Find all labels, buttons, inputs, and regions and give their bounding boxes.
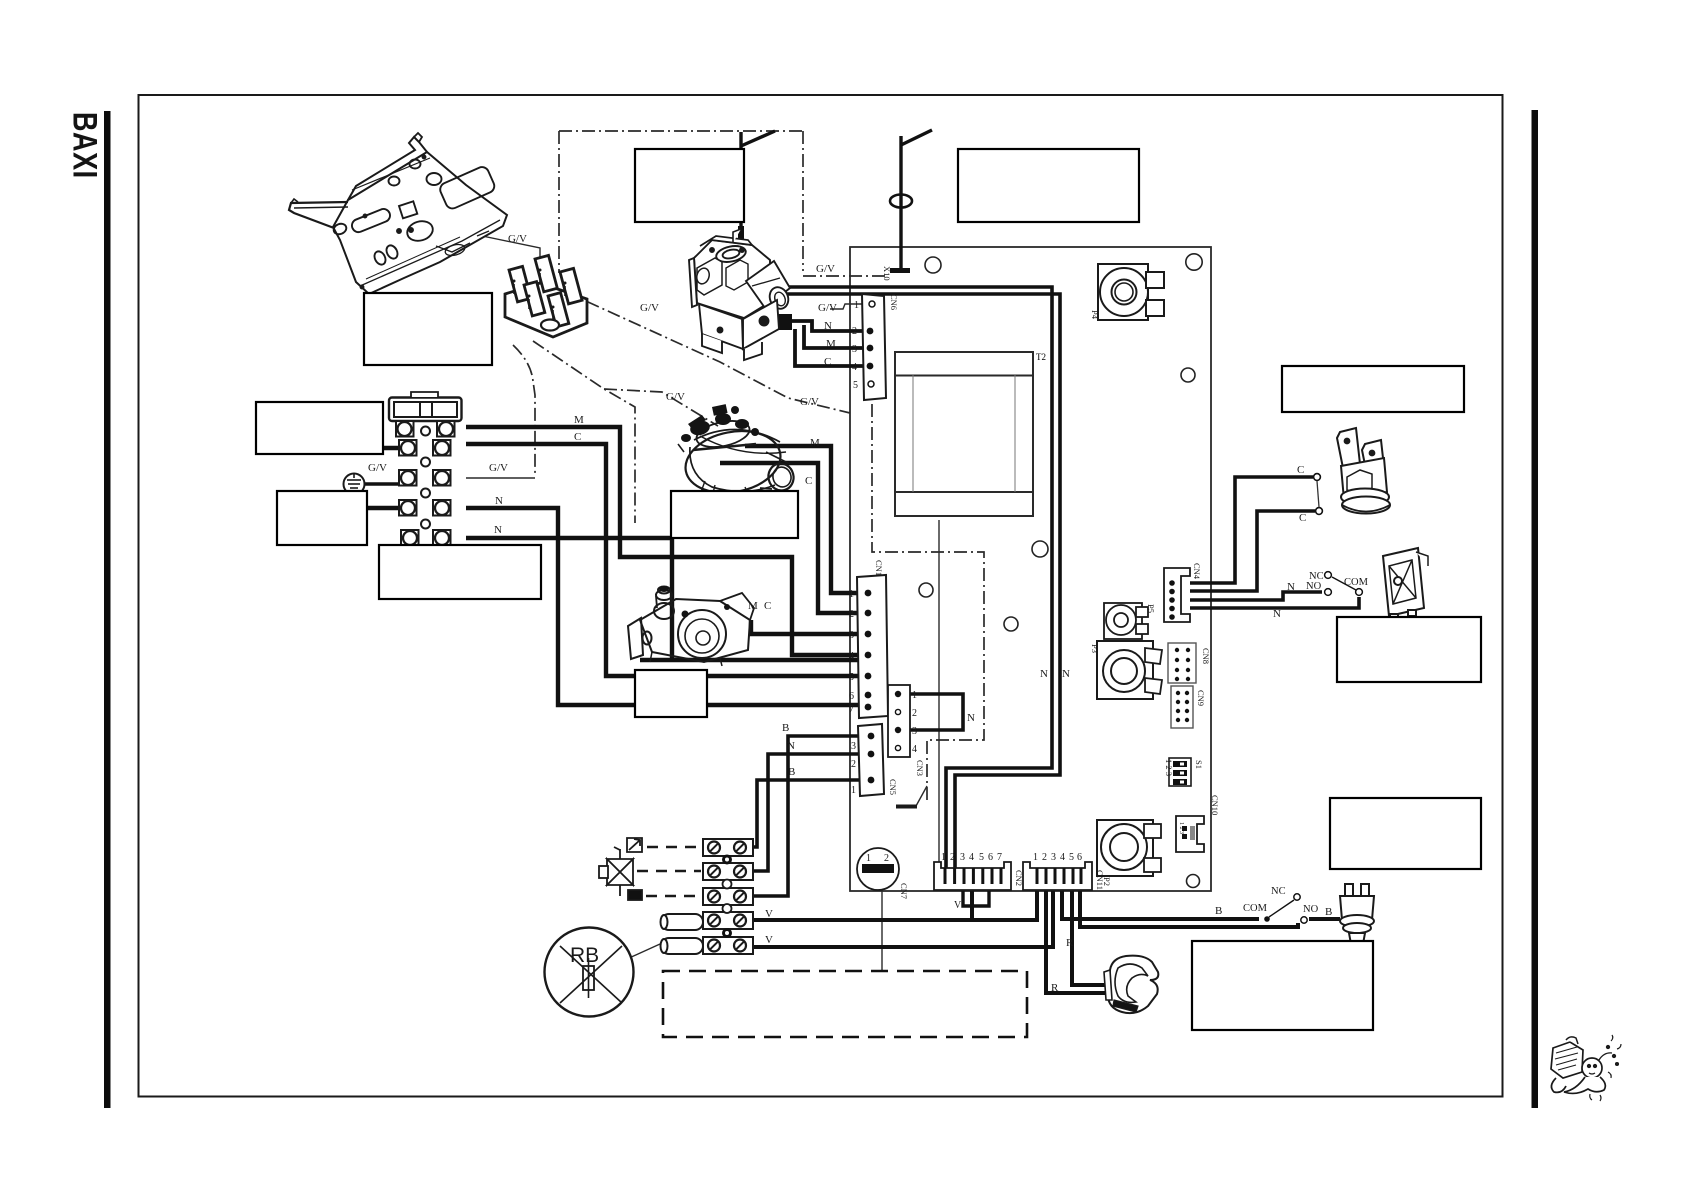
svg-text:M: M [810, 437, 820, 449]
svg-text:C: C [574, 431, 581, 443]
svg-text:C: C [824, 356, 831, 368]
svg-text:4: 4 [1060, 852, 1065, 863]
svg-text:N: N [787, 740, 795, 752]
svg-text:CN8: CN8 [1201, 648, 1211, 664]
svg-text:6: 6 [1077, 852, 1082, 863]
svg-text:P4: P4 [1090, 310, 1100, 320]
svg-text:4: 4 [969, 852, 974, 863]
svg-text:G/V: G/V [489, 462, 508, 474]
svg-text:3: 3 [852, 344, 857, 355]
svg-text:CN5: CN5 [888, 779, 898, 795]
svg-text:2: 2 [852, 326, 857, 337]
svg-text:1: 1 [941, 852, 946, 863]
svg-text:COM: COM [1344, 577, 1369, 588]
svg-text:N: N [1273, 608, 1281, 620]
svg-text:1 2 3: 1 2 3 [1178, 822, 1184, 834]
svg-text:1: 1 [912, 690, 917, 701]
svg-text:G/V: G/V [368, 462, 387, 474]
svg-text:2: 2 [851, 759, 856, 770]
svg-text:3: 3 [851, 741, 856, 752]
svg-text:N: N [1040, 668, 1048, 680]
svg-text:CN2: CN2 [1014, 870, 1024, 886]
svg-text:COM: COM [1243, 903, 1268, 914]
svg-text:3: 3 [960, 852, 965, 863]
svg-text:5: 5 [979, 852, 984, 863]
svg-text:C: C [1297, 464, 1304, 476]
svg-text:CN3: CN3 [915, 760, 925, 776]
svg-text:CN7: CN7 [899, 883, 909, 899]
svg-text:2: 2 [950, 852, 955, 863]
svg-text:1: 1 [854, 300, 859, 311]
svg-text:2: 2 [884, 853, 889, 864]
svg-text:M: M [574, 414, 584, 426]
svg-text:N: N [494, 524, 502, 536]
svg-text:1 2 3: 1 2 3 [1164, 759, 1174, 776]
svg-text:1: 1 [866, 853, 871, 864]
svg-text:RB: RB [570, 944, 599, 967]
svg-text:1: 1 [1033, 852, 1038, 863]
svg-text:T2: T2 [1036, 352, 1046, 362]
svg-text:M: M [748, 600, 758, 612]
svg-text:3: 3 [912, 726, 917, 737]
svg-text:B: B [1325, 906, 1332, 918]
svg-text:N: N [1062, 668, 1070, 680]
svg-text:X10: X10 [882, 266, 892, 281]
svg-text:C: C [764, 600, 771, 612]
svg-text:V: V [954, 900, 962, 911]
svg-text:1: 1 [849, 589, 854, 600]
svg-text:CN10: CN10 [1210, 795, 1220, 815]
svg-text:N: N [495, 495, 503, 507]
svg-text:G/V: G/V [666, 391, 685, 403]
svg-text:G/V: G/V [800, 396, 819, 408]
svg-text:5: 5 [1069, 852, 1074, 863]
svg-text:6: 6 [988, 852, 993, 863]
svg-text:2: 2 [849, 609, 854, 620]
svg-text:R: R [1066, 937, 1074, 949]
svg-text:V: V [765, 934, 773, 946]
svg-text:G/V: G/V [816, 263, 835, 275]
svg-text:3: 3 [849, 630, 854, 641]
svg-text:C: C [1299, 512, 1306, 524]
svg-text:G/V: G/V [818, 302, 837, 314]
svg-text:4: 4 [912, 744, 917, 755]
svg-text:CN9: CN9 [1196, 690, 1206, 706]
svg-text:7: 7 [849, 704, 854, 715]
svg-text:P5: P5 [1146, 604, 1156, 613]
svg-text:N: N [1287, 581, 1295, 593]
svg-text:C: C [805, 475, 812, 487]
svg-text:N: N [824, 320, 832, 332]
svg-text:NO: NO [1303, 904, 1319, 915]
svg-text:B: B [1215, 905, 1222, 917]
svg-text:7: 7 [997, 852, 1002, 863]
svg-text:5: 5 [849, 672, 854, 683]
svg-text:3: 3 [1051, 852, 1056, 863]
svg-text:1: 1 [851, 785, 856, 796]
svg-text:BAXI: BAXI [66, 112, 104, 179]
svg-text:B: B [788, 766, 795, 778]
svg-text:G/V: G/V [640, 302, 659, 314]
svg-text:S1: S1 [1194, 760, 1204, 769]
svg-text:6: 6 [849, 691, 854, 702]
svg-text:5: 5 [853, 380, 858, 391]
svg-text:2: 2 [912, 708, 917, 719]
svg-text:B: B [782, 722, 789, 734]
svg-text:V: V [765, 908, 773, 920]
svg-text:R: R [1051, 982, 1059, 994]
svg-text:4: 4 [852, 362, 857, 373]
svg-text:2: 2 [1042, 852, 1047, 863]
svg-text:CN4: CN4 [1192, 563, 1202, 580]
svg-text:CN1: CN1 [874, 560, 884, 576]
svg-text:P3: P3 [1090, 644, 1100, 653]
svg-text:CN6: CN6 [889, 294, 899, 310]
svg-text:N: N [967, 712, 975, 724]
svg-text:M: M [826, 338, 836, 350]
svg-text:NC: NC [1271, 886, 1286, 897]
svg-text:NO: NO [1306, 581, 1322, 592]
svg-text:P2: P2 [1102, 877, 1112, 886]
svg-text:4: 4 [849, 651, 854, 662]
svg-text:G/V: G/V [508, 233, 527, 245]
